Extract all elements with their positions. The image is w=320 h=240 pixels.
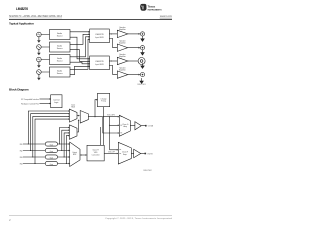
source V3 [37, 57, 42, 62]
svg-text:Block Diagram: Block Diagram [9, 88, 29, 92]
wire vdd to output stage A [104, 116, 119, 118]
wire net2 row2 to mux M1 [31, 114, 69, 151]
svg-text:VDD_SPK: VDD_SPK [107, 114, 116, 116]
wire mux M2 out to mux M3 [77, 121, 79, 132]
amp A2 [117, 44, 128, 51]
svg-text:Converter: Converter [92, 153, 100, 156]
mux M1 label [71, 104, 76, 109]
output stage A input marks [120, 116, 122, 133]
svg-text:Source: Source [57, 72, 63, 75]
TI logo bug [140, 4, 146, 11]
junction mux M4 out [81, 154, 82, 155]
svg-text:Gain: Gain [50, 151, 53, 153]
wire V1 to codec1 [39, 35, 50, 41]
junction box B out [111, 60, 112, 61]
codec box U4 [50, 67, 71, 77]
wire net8 row4 post-gain to mux M2 [66, 136, 68, 164]
codec box U1 [50, 30, 71, 40]
header rule [9, 18, 172, 21]
wire V2 to codec2 [39, 47, 50, 53]
svg-text:30167301: 30167301 [137, 84, 145, 86]
junction charge pump tap [94, 116, 95, 117]
svg-text:Input MUX: Input MUX [95, 36, 104, 39]
junction row3 tap [32, 156, 33, 157]
class H converter box [87, 145, 104, 161]
wire charge pump down to class H box [103, 107, 105, 146]
wire branch down [109, 117, 111, 150]
wire amp A2 to speaker SP2 [128, 47, 139, 49]
wire U1 out2 to mux box B in1 [70, 37, 90, 59]
input row 2 [20, 148, 71, 153]
speaker SP1 [140, 32, 144, 36]
wire net7 row3 post-gain to mux M2 [64, 133, 68, 157]
svg-text:SNAS517C –APRIL 2011–REVISED A: SNAS517C –APRIL 2011–REVISED APRIL 2013 [9, 15, 63, 18]
ground arrow V2 [37, 53, 41, 56]
pad OUTA [145, 125, 147, 127]
wire class H to output stage B [104, 153, 117, 155]
svg-text:Amp: Amp [124, 125, 128, 128]
wire V3 to codec3 [39, 60, 50, 66]
svg-text:Gain: Gain [50, 144, 53, 146]
output stage B input marks [119, 149, 121, 153]
wire net1 row1 to mux M1 [28, 111, 68, 144]
svg-text:I2C Compatible Interface: I2C Compatible Interface [21, 98, 39, 101]
wire output stage B to amp OA2 [131, 153, 133, 155]
ground arrow SP3 [141, 63, 144, 68]
codec box U2 [50, 42, 71, 52]
mux box A LM48276 [90, 29, 110, 43]
wire output stage A to amp OA1 [130, 125, 135, 127]
wire box B out1 to amp A3 [109, 60, 117, 62]
wire net6 row2 post-gain to mux M2 [62, 130, 69, 150]
codec box U3 [50, 55, 71, 65]
input row 4 [20, 161, 71, 166]
wire U3 out1 to mux box A in3 [70, 37, 90, 57]
svg-text:OUTA: OUTA [148, 125, 154, 128]
output stage B [118, 142, 131, 164]
junction branch2 [109, 125, 110, 126]
doc line underline [9, 17, 62, 19]
svg-text:Amplifier: Amplifier [119, 42, 126, 45]
svg-text:Pump: Pump [101, 101, 106, 103]
wire U4 out1 to mux box A in4 [70, 39, 90, 69]
wire audio to output stage A in3 [103, 117, 118, 133]
amp A1 [117, 30, 128, 37]
svg-text:Amp: Amp [123, 153, 127, 156]
svg-text:Source: Source [57, 34, 63, 37]
source V4 [37, 70, 42, 75]
wire branch to output stage A in2 [110, 124, 119, 126]
svg-text:Amplifier: Amplifier [119, 55, 126, 58]
junction row4 tap [34, 163, 35, 164]
amp OA2 [134, 149, 141, 157]
wire I2C to control box [40, 98, 50, 100]
amp A4 [117, 71, 128, 78]
wire mux M4 to class H box [80, 154, 86, 156]
wire net4 row4 to mux M1 [35, 119, 68, 163]
wire U2 out2 to mux box B in2 [70, 50, 90, 62]
amp A2 label [119, 40, 126, 45]
wire amp OA2 to pad OUTB [141, 153, 145, 155]
amp A1 label [119, 26, 126, 31]
ground arrow SP4 [140, 78, 143, 83]
svg-text:IN4: IN4 [20, 164, 23, 166]
svg-text:Input MUX: Input MUX [95, 63, 104, 66]
mux box B LM48276 [90, 56, 110, 70]
wire amp A3 to speaker SP3 [128, 60, 138, 62]
control logic box [51, 95, 62, 108]
source V1 [37, 32, 42, 37]
svg-text:Gain: Gain [50, 164, 53, 166]
mux M3 [80, 111, 88, 124]
wire U1 out1 to mux box A in1 [70, 31, 90, 33]
wire U4 out2 to mux box B in4 [70, 66, 90, 74]
svg-text:Logic: Logic [54, 102, 59, 104]
wire box B out2 to amp A4 [109, 66, 117, 75]
mux M2 [69, 125, 77, 140]
svg-text:Texas: Texas [148, 4, 156, 8]
page background [0, 0, 180, 232]
speaker SP2 [140, 46, 144, 50]
ground arrow V1 [37, 40, 41, 43]
junction vdd wire [103, 116, 104, 117]
ground arrow V4 [37, 78, 41, 81]
ground arrow V3 [37, 65, 41, 68]
www.ti.com underline [160, 17, 173, 19]
output stage A [119, 115, 130, 136]
svg-text:Amplifier: Amplifier [119, 69, 126, 72]
wire mux M3 out [88, 116, 102, 118]
wire U3 out2 to mux box B in3 [70, 62, 90, 64]
footer rule [9, 214, 172, 217]
speaker SP3 [138, 58, 145, 65]
wire control pins to control box [40, 103, 50, 105]
wire branch to output stage B in1 [110, 149, 118, 151]
mux box B input arrows [88, 58, 90, 67]
svg-text:INSTRUMENTS: INSTRUMENTS [148, 9, 163, 11]
svg-text:30167302: 30167302 [143, 170, 151, 172]
junction box A out [111, 33, 112, 34]
junction row4 post tap [66, 163, 67, 164]
speaker SP4 [140, 73, 144, 77]
svg-text:Source: Source [57, 47, 63, 50]
junction row3 post tap [64, 156, 65, 157]
junction row1 tap [28, 143, 29, 144]
junction row1 post tap [59, 143, 60, 144]
wire charge pump down to class H box 2 [100, 127, 102, 145]
wire amp A4 to speaker SP4 [128, 74, 139, 76]
ground arrow SP1 [141, 36, 144, 41]
svg-text:Hardware Control Pins: Hardware Control Pins [21, 103, 39, 106]
ground arrow SP2 [141, 50, 144, 55]
svg-text:Source: Source [57, 59, 63, 62]
amp A4 label [119, 67, 126, 72]
mux M4 [70, 142, 80, 167]
svg-text:LM48276: LM48276 [16, 7, 28, 11]
wire V4 to codec4 [39, 72, 50, 78]
wire mux M1 out to mux M3 [77, 115, 78, 117]
source V2 [37, 45, 42, 50]
junction row2 tap [30, 150, 31, 151]
wire net3 row3 to mux M1 [33, 116, 69, 157]
wire to charge pump [95, 100, 96, 117]
svg-text:IN2: IN2 [20, 151, 23, 153]
pad OUTB [145, 153, 147, 155]
input row 1 [20, 142, 71, 147]
wire amp OA1 to pad OUTA [141, 125, 145, 127]
svg-text:IN3: IN3 [20, 157, 23, 159]
amp OA1 [135, 122, 141, 130]
wire box A out2 to amp A2 [109, 39, 117, 48]
svg-text:Amplifier: Amplifier [119, 28, 126, 31]
amp A3 label [119, 53, 126, 58]
svg-text:www.ti.com: www.ti.com [160, 15, 172, 18]
svg-text:Typical Application: Typical Application [9, 22, 34, 26]
input row 3 [20, 155, 71, 160]
wire net5 row1 post-gain to mux M2 [60, 128, 69, 145]
wire U2 out1 to mux box A in2 [70, 34, 90, 44]
wire amp A1 to speaker SP1 [128, 33, 139, 35]
charge pump box [97, 93, 109, 106]
svg-text:IN1: IN1 [20, 144, 23, 146]
amp A3 [117, 57, 128, 64]
svg-text:Copyright © 2011–2013, Texas I: Copyright © 2011–2013, Texas Instruments… [105, 217, 172, 220]
svg-text:Gain: Gain [50, 157, 53, 159]
junction branch [109, 116, 110, 117]
svg-text:OUTB: OUTB [147, 153, 153, 155]
wire box A out1 to amp A1 [109, 33, 117, 35]
mux box A input arrows [88, 31, 90, 40]
mux M1 [69, 109, 77, 122]
junction row2 post tap [61, 150, 62, 151]
